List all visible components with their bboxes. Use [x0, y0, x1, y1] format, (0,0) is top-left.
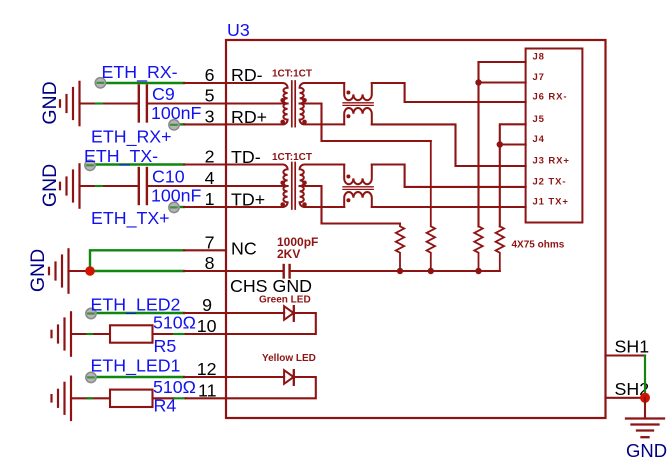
svg-text:C10: C10 [152, 167, 185, 187]
choke TX top winding [344, 165, 372, 185]
resistor term 2 with feed from RX center tap [427, 141, 435, 271]
svg-text:9: 9 [202, 295, 212, 315]
wire GND to R4 [71, 397, 110, 399]
svg-text:Yellow LED: Yellow LED [262, 353, 316, 364]
wire J5 [500, 124, 526, 226]
transformer TX primary phase dots [280, 181, 285, 186]
choke RX top phase dot [346, 91, 350, 95]
wire RX secondary center tap [300, 104, 431, 142]
svg-text:GND: GND [39, 164, 61, 207]
net port circle ETH_TX+ [169, 202, 179, 212]
svg-text:J1 TX+: J1 TX+ [533, 197, 569, 208]
wire J7 [479, 81, 526, 83]
junction dot J7 [475, 79, 481, 85]
wire green fragment (row 5) [96, 102, 102, 104]
wire R4 to pin 11 (red) [153, 397, 175, 399]
green LED diode [284, 306, 294, 321]
transformer RX core [292, 81, 295, 127]
wire C10 to pin 4 and transformer center tap [148, 185, 288, 187]
svg-text:ETH_LED1: ETH_LED1 [91, 356, 181, 377]
svg-text:CHS GND: CHS GND [230, 276, 312, 296]
net port circle ETH_RX+ [169, 120, 179, 130]
wire net ETH_RX+ (green stub) [179, 123, 184, 125]
wire TX secondary center tap [300, 186, 400, 224]
ground symbol (row 5) [60, 82, 80, 125]
resistor term 3 [474, 226, 482, 271]
junction dot SH2 [640, 393, 650, 403]
svg-text:GND: GND [626, 440, 667, 461]
wire pin 8 (red) into box to C-1000pF [184, 270, 283, 272]
wire green fragment (row 11) [88, 397, 93, 399]
wire green fragment pin11 [174, 397, 186, 399]
wire pin 7 (red) [184, 249, 226, 251]
net port circle ETH_RX- [95, 78, 105, 88]
svg-text:J3 RX+: J3 RX+ [533, 156, 570, 167]
transformer RX secondary winding [300, 83, 345, 124]
wire green SH1 to SH2 [644, 356, 646, 398]
resistor term 4 [496, 226, 504, 271]
transformer TX primary winding [226, 165, 288, 208]
net port circle ETH_LED1 [86, 372, 96, 382]
choke TX core [343, 187, 373, 190]
svg-text:1CT:1CT: 1CT:1CT [272, 69, 312, 80]
ground symbol (row 8) [49, 249, 69, 292]
svg-text:NC: NC [231, 239, 257, 259]
wire net ETH_LED1 (green) [91, 376, 184, 378]
wire yellow LED to pin 11 loop [226, 377, 316, 398]
ground symbol (chassis, bottom right) [626, 419, 664, 438]
svg-text:J8: J8 [533, 52, 545, 63]
choke TX bottom phase dot [346, 198, 350, 202]
svg-text:8: 8 [205, 253, 215, 273]
wire termination bus [291, 270, 500, 272]
svg-text:5: 5 [205, 86, 215, 106]
wire green to pin 8 [90, 270, 184, 272]
svg-text:1: 1 [205, 189, 215, 209]
wire pin 2 (red) [184, 163, 226, 165]
wire green LED to pin 10 loop [226, 313, 316, 334]
svg-text:2KV: 2KV [277, 247, 300, 261]
resistor R5 body [110, 325, 153, 342]
svg-text:C9: C9 [152, 84, 175, 104]
wire green up to pin 7 [90, 250, 184, 271]
resistor term 1 [396, 224, 404, 272]
choke RX top winding [344, 83, 372, 100]
wire net ETH_LED2 (green) [91, 312, 184, 314]
transformer TX core [292, 163, 295, 210]
svg-text:ETH_TX-: ETH_TX- [84, 146, 158, 167]
junction dot J4 [497, 141, 503, 147]
wire SH2 [606, 397, 646, 399]
wire choke TX top to J2 [372, 165, 526, 187]
svg-text:R5: R5 [154, 336, 177, 356]
wire net ETH_TX- (green) [90, 163, 184, 165]
wire C9 to pin 5 and transformer center tap [148, 102, 288, 104]
svg-text:ETH_RX-: ETH_RX- [102, 62, 178, 83]
wire pin 11 (red) [186, 397, 227, 399]
svg-text:6: 6 [205, 65, 215, 85]
net port circle ETH_TX- [85, 160, 95, 170]
capacitor 1000pF 2KV [284, 265, 290, 278]
wire green fragment (row 10) [88, 333, 93, 335]
svg-text:J2 TX-: J2 TX- [533, 176, 567, 187]
svg-text:GND: GND [27, 249, 49, 292]
svg-text:4: 4 [205, 168, 215, 188]
svg-text:U3: U3 [227, 20, 250, 40]
svg-text:J6 RX-: J6 RX- [533, 92, 568, 103]
wire green fragment pin10 [174, 333, 186, 335]
IC U3 body [226, 40, 606, 418]
yellow LED diode [284, 370, 294, 385]
svg-text:Green LED: Green LED [259, 295, 311, 306]
choke TX bottom winding [344, 192, 372, 207]
svg-text:ETH_RX+: ETH_RX+ [91, 127, 172, 148]
svg-text:J7: J7 [533, 72, 545, 83]
junction dot bus 3 [475, 268, 481, 274]
junction dot bus 2 [428, 268, 434, 274]
svg-text:510Ω: 510Ω [153, 377, 196, 397]
wire pin 10 (red) [186, 333, 227, 335]
wire pin 3 (red) [184, 123, 226, 125]
wire pin 6 (red) [184, 82, 226, 84]
wire SH2 to ground [644, 398, 646, 418]
wire choke RX bottom to J3 [372, 124, 526, 166]
wire green fragment (row 4) [96, 185, 102, 187]
wire net ETH_RX- (green) [100, 82, 184, 84]
choke RX bottom phase dot [346, 114, 350, 118]
capacitor C9 [139, 86, 147, 122]
svg-text:7: 7 [205, 232, 215, 252]
wire choke TX bottom to J1 [372, 206, 526, 208]
wire GND to C10 [80, 185, 138, 187]
svg-text:J5: J5 [533, 114, 545, 125]
svg-text:3: 3 [205, 106, 215, 126]
transformer RX primary winding [226, 83, 288, 124]
svg-text:4X75 ohms: 4X75 ohms [512, 240, 565, 251]
wire J8 [479, 61, 526, 63]
svg-text:10: 10 [197, 316, 217, 336]
wire J4 [500, 143, 526, 145]
wire choke RX top to J6 [372, 83, 526, 102]
wire SH1 [606, 354, 646, 356]
J block body [526, 49, 583, 223]
capacitor C10 [139, 168, 147, 204]
wire GND to junction [69, 270, 91, 272]
svg-text:2: 2 [205, 147, 215, 167]
svg-text:GND: GND [39, 81, 61, 124]
svg-text:510Ω: 510Ω [153, 313, 196, 333]
svg-text:ETH_TX+: ETH_TX+ [91, 208, 170, 229]
junction dot pins 7/8 ground [85, 266, 95, 276]
ground symbol (row 11) [52, 377, 72, 420]
svg-text:11: 11 [198, 380, 217, 400]
wire pin 1 (red) [184, 206, 226, 208]
ground symbol (row 4) [60, 164, 80, 207]
junction dot bus 1 [397, 268, 403, 274]
wire J8/J7 vertical to resistor [477, 62, 479, 227]
svg-text:SH1: SH1 [615, 337, 650, 357]
transformer TX secondary winding [300, 165, 345, 208]
choke TX top phase dot [346, 175, 350, 179]
wire R5 to pin 10 (red) [153, 333, 175, 335]
wire pin 9 (red) [184, 312, 284, 314]
svg-text:J4: J4 [533, 134, 545, 145]
svg-text:12: 12 [197, 359, 217, 379]
svg-text:1CT:1CT: 1CT:1CT [272, 152, 312, 163]
wire GND to C9 [80, 102, 138, 104]
ground symbol (row 10) [52, 312, 72, 355]
transformer RX secondary phase dots [302, 98, 307, 103]
wire net ETH_TX+ (green stub) [179, 206, 184, 208]
transformer RX primary phase dots [280, 98, 285, 103]
svg-text:R4: R4 [154, 396, 177, 416]
wire pin 12 (red) [184, 376, 284, 378]
wire GND to R5 [71, 333, 110, 335]
resistor R4 body [110, 390, 153, 407]
transformer TX secondary phase dots [302, 181, 307, 186]
net port circle ETH_LED2 [86, 308, 96, 318]
choke RX bottom winding [344, 108, 372, 124]
choke RX core [343, 103, 373, 106]
